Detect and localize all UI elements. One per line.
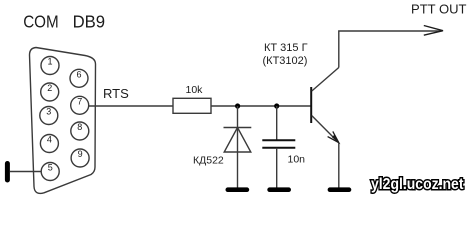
svg-text:PTT OUT: PTT OUT — [411, 2, 467, 17]
wire pin5 to ground G1 — [10, 171, 41, 173]
pin 1 — [41, 57, 59, 75]
wire resistor to transistor base — [211, 105, 311, 107]
label 10k — [186, 84, 204, 96]
svg-text:9: 9 — [78, 149, 83, 159]
svg-text:yl2gl.ucoz.net: yl2gl.ucoz.net — [371, 176, 464, 193]
transistor Q1 base bar — [310, 87, 312, 123]
svg-text:DB9: DB9 — [73, 12, 106, 32]
svg-text:RTS: RTS — [103, 86, 129, 101]
ground G4 (below emitter) — [328, 187, 352, 192]
wire capacitor to ground — [276, 148, 278, 188]
node A (junction diode) — [235, 103, 240, 108]
label КТ 315 Г (КТ3102) — [263, 42, 308, 67]
svg-text:1: 1 — [47, 57, 52, 67]
svg-text:6: 6 — [76, 69, 81, 79]
wire capacitor branch top — [276, 106, 278, 140]
wire emitter to ground — [338, 143, 340, 188]
resistor R1 — [173, 98, 211, 113]
diode VD1 КД522 — [224, 128, 252, 153]
node B (junction capacitor) — [274, 103, 279, 108]
wire diode branch top — [237, 106, 239, 152]
wire collector to PTT OUT — [339, 31, 442, 68]
svg-text:7: 7 — [77, 96, 82, 106]
svg-text:3: 3 — [46, 107, 51, 117]
svg-text:8: 8 — [77, 122, 82, 132]
connector J1 DB9 shell — [30, 48, 96, 194]
pin 3 — [40, 107, 58, 125]
svg-text:2: 2 — [47, 83, 52, 93]
svg-text:КД522: КД522 — [193, 155, 224, 167]
pin 5 — [41, 163, 59, 181]
transistor Q1 emitter line with arrow — [312, 116, 339, 143]
label 10n — [288, 153, 306, 165]
ground G2 (below diode) — [226, 187, 250, 192]
watermark yl2gl.ucoz.net — [371, 176, 464, 193]
svg-text:10n: 10n — [288, 153, 306, 165]
label COM DB9 — [23, 12, 105, 32]
svg-text:10k: 10k — [186, 84, 204, 96]
svg-text:4: 4 — [47, 135, 52, 145]
pin 2 — [41, 83, 59, 101]
svg-text:(КТ3102): (КТ3102) — [263, 55, 308, 67]
capacitor C1 — [262, 140, 295, 148]
svg-text:5: 5 — [48, 163, 53, 173]
label КД522 — [193, 155, 224, 167]
label PTT OUT — [411, 2, 467, 17]
ground G3 (below capacitor) — [267, 187, 291, 192]
transistor Q1 collector line — [312, 68, 339, 92]
wire diode to ground — [237, 152, 239, 188]
wire RTS (pin7 to resistor) — [89, 105, 173, 107]
pin 7 — [71, 96, 89, 114]
svg-text:COM: COM — [23, 12, 59, 32]
pin 9 — [71, 149, 89, 167]
arrowhead PTT OUT — [424, 26, 443, 36]
pin 6 — [70, 69, 88, 87]
svg-text:КТ 315 Г: КТ 315 Г — [264, 42, 308, 54]
label RTS — [103, 86, 129, 101]
pin 8 — [71, 122, 89, 140]
ground G1 (left of pin 5) — [5, 161, 10, 183]
pin 4 — [40, 135, 58, 153]
